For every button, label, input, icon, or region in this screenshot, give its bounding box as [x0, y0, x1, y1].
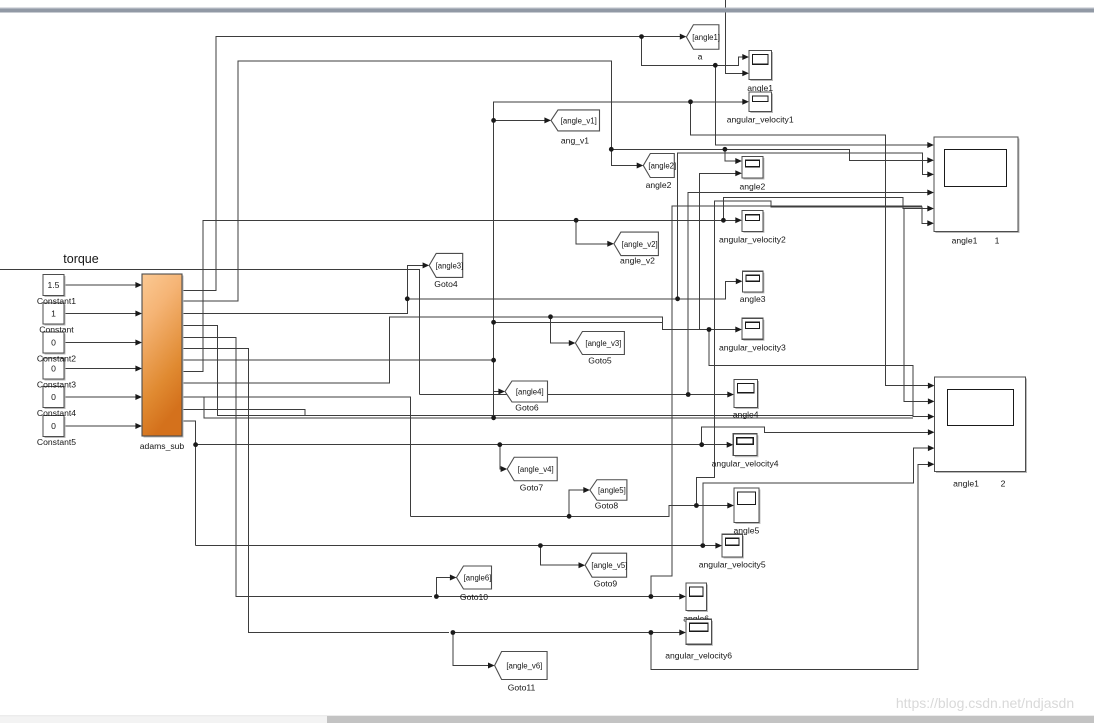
- wire av2 to bigscope1 in5: [723, 198, 930, 221]
- wire out7 row: [182, 359, 494, 361]
- wire av5 row: [196, 545, 719, 547]
- junction av4 B: [699, 442, 704, 447]
- wire out2 angle2 riser: [182, 61, 640, 301]
- arrowhead into tag angle2: [637, 163, 644, 169]
- label angle1 1: [952, 236, 1000, 246]
- svg-text:ang_v1: ang_v1: [561, 136, 589, 146]
- svg-text:Goto6: Goto6: [515, 403, 539, 413]
- wire out10 row: [182, 397, 411, 516]
- junction branch322: [491, 320, 496, 325]
- junction av6 B: [649, 630, 654, 635]
- wire out5 drop: [182, 337, 432, 596]
- svg-text:angle4: angle4: [733, 410, 759, 420]
- svg-text:Constant: Constant: [39, 325, 74, 335]
- svg-text:Goto4: Goto4: [434, 279, 458, 289]
- subsystem adams_sub: [140, 274, 185, 451]
- wire angle5 riser to bigscope1 in6: [696, 201, 930, 505]
- wire angle1 to scope in1: [715, 57, 745, 65]
- svg-text:Constant1: Constant1: [37, 296, 76, 306]
- label Goto4: [434, 279, 458, 289]
- svg-text:2: 2: [1001, 479, 1006, 489]
- arrowhead into bigscope2 in1: [928, 383, 935, 389]
- wire av6 row: [453, 632, 682, 634]
- wire out3 to Goto4: [182, 265, 425, 313]
- wire angle5 row: [411, 506, 731, 517]
- wire out8 riser: [182, 220, 576, 371]
- wire angle1 branch down: [642, 37, 716, 66]
- arrowhead into scope angle2 in2: [735, 170, 742, 176]
- wire branch to bigscope2 in2: [904, 209, 931, 402]
- wire constant2 to adams_sub: [64, 313, 138, 315]
- label Goto9: [594, 579, 618, 589]
- svg-text:[angle4]: [angle4]: [516, 388, 544, 397]
- scope block angular_velocity3: [742, 318, 765, 341]
- svg-text:angular_velocity3: angular_velocity3: [719, 343, 786, 353]
- constant block Constant4: [43, 387, 66, 410]
- svg-text:angular_velocity4: angular_velocity4: [712, 459, 779, 469]
- goto tag [angle5]: [590, 480, 627, 501]
- wire angle5 to Goto8: [569, 490, 586, 516]
- constant block Constant5: [43, 416, 66, 439]
- junction angle6 B: [649, 594, 654, 599]
- wire av6 to Goto11: [453, 633, 491, 666]
- junction angle5 B: [694, 503, 699, 508]
- label Constant3: [37, 380, 76, 390]
- arrowhead into scope angle1 in2: [742, 70, 749, 76]
- junction angle1 B: [713, 63, 718, 68]
- junction angle4: [686, 392, 691, 397]
- label Goto8: [595, 501, 619, 511]
- svg-text:a: a: [698, 52, 703, 62]
- arrowhead into bigscope2 in2: [928, 398, 935, 404]
- svg-text:https://blog.csdn.net/ndjasdn: https://blog.csdn.net/ndjasdn: [896, 695, 1074, 711]
- wire av3 to Goto5: [551, 317, 572, 343]
- svg-text:Goto11: Goto11: [508, 683, 536, 693]
- wire angle3 row: [407, 281, 738, 299]
- arrowhead into scope av4: [727, 442, 734, 448]
- arrowhead into tag angle_v3 Goto5: [569, 340, 576, 346]
- svg-text:0: 0: [51, 392, 56, 402]
- label angle1 2: [953, 479, 1006, 489]
- junction angle3 A: [405, 296, 410, 301]
- wire offscreen to scope angle1 in2: [726, 0, 746, 73]
- label Constant4: [37, 408, 76, 418]
- arrowhead into scope angle5: [727, 503, 734, 509]
- wire av4 to Goto7: [500, 445, 504, 469]
- junction angle6 A: [434, 594, 439, 599]
- goto tag [angle_v5]: [585, 553, 627, 577]
- goto tag [angle2]: [643, 154, 676, 178]
- svg-text:torque: torque: [63, 252, 98, 266]
- scope block angular_velocity4: [733, 434, 758, 457]
- svg-text:angle2: angle2: [646, 180, 672, 190]
- wire av5 to Goto9: [540, 546, 581, 566]
- wire av2 to Goto angle_v2: [576, 220, 610, 244]
- svg-text:Goto7: Goto7: [520, 483, 544, 493]
- scope block angle3: [742, 271, 764, 293]
- svg-text:Constant4: Constant4: [37, 408, 76, 418]
- wire av5 to bigscope2 in5: [703, 448, 931, 545]
- label angle5: [733, 526, 759, 536]
- svg-text:[angle5]: [angle5]: [598, 486, 626, 495]
- wire angle6 row: [436, 596, 682, 598]
- svg-text:angular_velocity6: angular_velocity6: [665, 651, 732, 661]
- label angle4: [733, 410, 759, 420]
- svg-text:[angle_v6]: [angle_v6]: [506, 662, 542, 671]
- wire angle6 to Goto10: [436, 578, 452, 597]
- wire av6 to bigscope2 in6: [651, 464, 931, 669]
- label angular_velocity6: [665, 651, 732, 661]
- svg-text:0: 0: [51, 421, 56, 431]
- arrowhead into tag angle3 Goto4: [423, 262, 430, 268]
- wire out9 riser: [182, 317, 738, 383]
- junction angle2 B: [723, 147, 728, 152]
- arrowhead into tag angle6 Goto10: [450, 575, 457, 581]
- arrowhead into bigscope1 in1: [927, 142, 934, 148]
- wire out4 drop to row415: [182, 326, 913, 416]
- svg-text:angle1: angle1: [952, 236, 978, 246]
- arrowhead into adams_sub in2: [135, 311, 142, 317]
- label angular_velocity4: [712, 459, 779, 469]
- arrowhead into scope av3: [735, 327, 742, 333]
- scope block angle1: [749, 51, 773, 82]
- junction out7: [491, 358, 496, 363]
- arrowhead into tag angle_v6 Goto11: [488, 663, 495, 669]
- label Constant1: [37, 296, 76, 306]
- svg-text:angular_velocity5: angular_velocity5: [699, 560, 766, 570]
- wire av4 to bigscope2 in4: [702, 427, 931, 445]
- junction av4 A: [497, 442, 502, 447]
- svg-text:angular_velocity2: angular_velocity2: [719, 235, 786, 245]
- wire av1 to Goto ang_v1: [494, 119, 548, 121]
- arrowhead into bigscope1 in3: [927, 171, 934, 177]
- scope block angle2: [742, 156, 765, 179]
- svg-text:0: 0: [51, 364, 56, 374]
- junction av2 A: [574, 218, 579, 223]
- label angle6: [683, 614, 709, 624]
- arrowhead into bigscope1 in4: [927, 190, 934, 196]
- junction av3 A: [548, 314, 553, 319]
- arrowhead into adams_sub in3: [135, 340, 142, 346]
- top window border bar: [0, 8, 1094, 13]
- svg-text:[angle_v3]: [angle_v3]: [585, 339, 621, 348]
- goto tag [angle3]: [429, 253, 463, 277]
- arrowhead into scope angle3: [736, 278, 743, 284]
- arrowhead into bigscope2 in3: [928, 414, 935, 420]
- wire torque row: [0, 269, 419, 394]
- svg-text:[angle_v4]: [angle_v4]: [518, 465, 554, 474]
- goto tag [angle1]: [686, 25, 720, 50]
- junction angle1 A: [639, 34, 644, 39]
- label angular_velocity3: [719, 343, 786, 353]
- wire angle2 to scope in1: [725, 149, 738, 161]
- svg-text:angle2: angle2: [739, 182, 765, 192]
- junction av1 scope: [688, 99, 693, 104]
- arrowhead into scope angle4: [727, 392, 734, 398]
- svg-text:angle3: angle3: [740, 294, 766, 304]
- label Goto11: [508, 683, 536, 693]
- wire constant3 to adams_sub: [64, 342, 138, 344]
- arrowhead into tag angle4 Goto6: [498, 389, 505, 395]
- svg-text:adams_sub: adams_sub: [140, 441, 185, 451]
- junction angle2 A: [609, 147, 614, 152]
- svg-text:Constant5: Constant5: [37, 437, 76, 447]
- svg-text:[angle_v5]: [angle_v5]: [591, 561, 627, 570]
- arrowhead into tag angle_v2: [607, 241, 614, 247]
- wire av1 vertical: [494, 102, 745, 418]
- label Goto6: [515, 403, 539, 413]
- label angular_velocity1: [727, 115, 794, 125]
- label torque: [63, 252, 98, 266]
- arrowhead into bigscope2 in6: [928, 461, 935, 467]
- svg-text:[angle_v1]: [angle_v1]: [561, 116, 597, 125]
- wire out12 drop: [182, 421, 196, 546]
- svg-text:1.5: 1.5: [48, 280, 60, 290]
- wire angle4 row: [419, 394, 730, 396]
- scope block angle5: [734, 488, 761, 524]
- arrowhead into bigscope1 in6: [927, 220, 934, 226]
- label Goto10: [460, 592, 488, 602]
- junction av4 src: [193, 442, 198, 447]
- label Goto5: [588, 356, 612, 366]
- arrowhead into adams_sub in6: [135, 423, 142, 429]
- arrowhead into bigscope1 in2: [927, 157, 934, 163]
- scope block bigscope angle1-1: [934, 137, 1020, 233]
- wire riser to scope angle2 in2: [700, 173, 739, 329]
- wire av4 row: [196, 444, 730, 446]
- wire constant4 to adams_sub: [64, 368, 138, 370]
- svg-text:[angle6]: [angle6]: [464, 574, 492, 583]
- arrowhead into tag ang_v1: [544, 117, 551, 123]
- arrowhead into scope angle2 in1: [735, 158, 742, 164]
- label angular_velocity2: [719, 235, 786, 245]
- arrowhead into tag angle_v4 Goto7: [501, 466, 508, 472]
- label Constant: [39, 325, 74, 335]
- bottom scrollbar track: [0, 715, 1094, 723]
- label angle2: [739, 182, 765, 192]
- goto tag [angle_v1]: [551, 110, 600, 131]
- junction ang_v1: [491, 118, 496, 123]
- wire angle4 riser to bigscope1 in4: [688, 193, 930, 395]
- label angular_velocity5: [699, 560, 766, 570]
- svg-text:Goto9: Goto9: [594, 579, 618, 589]
- constant block Constant: [43, 303, 66, 326]
- wire av1 to bigscope2 in1: [691, 102, 931, 386]
- scope block angular_velocity6: [686, 619, 713, 646]
- goto tag [angle4]: [505, 381, 548, 402]
- scope block bigscope angle1-2: [935, 377, 1028, 473]
- arrowhead into bigscope2 in5: [928, 445, 935, 451]
- wire branch row 322: [494, 322, 663, 329]
- scope block angle6: [686, 583, 708, 612]
- svg-text:Goto8: Goto8: [595, 501, 619, 511]
- arrowhead into bigscope2 in4: [928, 429, 935, 435]
- scope block angular_velocity5: [722, 534, 744, 558]
- junction av5 A: [538, 543, 543, 548]
- constant block Constant1: [43, 275, 66, 298]
- junction angle5 A: [567, 514, 572, 519]
- arrowhead into tag angle5 Goto8: [583, 487, 590, 493]
- svg-text:Constant2: Constant2: [37, 354, 76, 364]
- arrowhead into bigscope1 in5: [927, 206, 934, 212]
- arrowhead into tag angle1: [680, 34, 687, 40]
- constant block Constant2: [43, 332, 66, 355]
- svg-text:1: 1: [995, 236, 1000, 246]
- goto tag [angle_v2]: [614, 232, 659, 256]
- wire constant1 to adams_sub: [64, 284, 138, 286]
- svg-text:[angle1]: [angle1]: [692, 33, 720, 42]
- goto tag [angle_v4]: [507, 457, 557, 481]
- junction av5 B: [700, 543, 705, 548]
- arrowhead into adams_sub in4: [135, 366, 142, 372]
- wire angle2 row: [611, 149, 930, 160]
- arrowhead into adams_sub in5: [135, 394, 142, 400]
- label angle3: [740, 294, 766, 304]
- svg-text:[angle_v2]: [angle_v2]: [622, 240, 658, 249]
- svg-text:[angle2]: [angle2]: [648, 162, 676, 171]
- label angle2: [646, 180, 672, 190]
- svg-text:angle1: angle1: [953, 479, 979, 489]
- arrowhead into scope angle1 in1: [742, 54, 749, 60]
- goto tag [angle6]: [457, 566, 492, 589]
- goto tag [angle_v3]: [575, 332, 624, 355]
- wire constant6 to adams_sub: [64, 425, 138, 427]
- constant block Constant3: [43, 358, 66, 381]
- svg-text:Constant3: Constant3: [37, 380, 76, 390]
- wire angle1 to bigscope1 in1: [715, 65, 930, 145]
- label a: [698, 52, 703, 62]
- svg-text:[angle3]: [angle3]: [436, 261, 464, 270]
- bottom scrollbar thumb: [327, 716, 1094, 723]
- arrowhead into scope av1: [742, 99, 749, 105]
- junction av2 B: [721, 218, 726, 223]
- label ang_v1: [561, 136, 589, 146]
- arrowhead into scope angle6: [679, 594, 686, 600]
- wire goto6 branch: [494, 392, 502, 418]
- wire out11 z: [182, 409, 305, 415]
- svg-text:1: 1: [51, 309, 56, 319]
- label angle_v2: [620, 256, 655, 266]
- wire angle3 riser to in3: [678, 153, 930, 299]
- wire out10 drop417: [204, 397, 913, 418]
- label Constant2: [37, 354, 76, 364]
- arrowhead into scope av2: [735, 217, 742, 223]
- svg-text:angular_velocity1: angular_velocity1: [727, 115, 794, 125]
- svg-text:Goto5: Goto5: [588, 356, 612, 366]
- scope block angular_velocity1: [749, 92, 773, 113]
- junction av6 A: [451, 630, 456, 635]
- arrowhead into scope av6: [679, 630, 686, 636]
- svg-text:0: 0: [51, 338, 56, 348]
- junction row417: [491, 415, 496, 420]
- wire av2 row: [576, 219, 738, 221]
- wire angle6 riser to bigscope1 in6: [651, 206, 922, 596]
- wire out1 angle1 to tag: [182, 37, 682, 291]
- arrowhead into tag angle_v5 Goto9: [579, 562, 586, 568]
- label Constant5: [37, 437, 76, 447]
- arrowhead into scope av5: [715, 543, 722, 549]
- label Goto7: [520, 483, 544, 493]
- wire constant5 to adams_sub: [64, 396, 138, 398]
- scope block angle4: [734, 380, 759, 410]
- arrowhead into adams_sub in1: [135, 282, 142, 288]
- junction angle3 B: [675, 296, 680, 301]
- wire out6 drop: [182, 349, 449, 633]
- wire av3 to bigscope2 in3: [709, 330, 931, 417]
- svg-text:Goto10: Goto10: [460, 592, 488, 602]
- watermark: [896, 695, 1074, 711]
- scope block angular_velocity2: [742, 211, 765, 233]
- goto tag [angle_v6]: [495, 652, 547, 680]
- svg-text:angle_v2: angle_v2: [620, 256, 655, 266]
- label angle1: [747, 83, 773, 93]
- junction av3 B: [707, 327, 712, 332]
